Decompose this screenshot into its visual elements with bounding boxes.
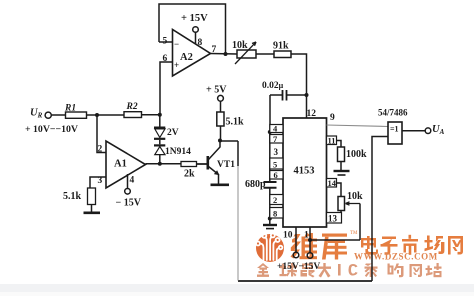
svg-text:− 15V: − 15V — [116, 198, 142, 209]
场 — [425, 236, 445, 255]
svg-text:A1: A1 — [114, 159, 127, 170]
pin 11 box — [327, 136, 337, 145]
svg-text:2: 2 — [273, 195, 277, 205]
svg-text:2: 2 — [98, 145, 103, 155]
op-amp A1 — [106, 141, 146, 188]
svg-text:+15V: +15V — [277, 262, 299, 272]
pin 4 stub — [127, 174, 129, 188]
子 — [381, 237, 398, 255]
ground: VT1 emitter — [211, 184, 230, 187]
svg-text:4: 4 — [130, 176, 135, 186]
svg-text:9: 9 — [330, 113, 335, 123]
resistor R1 — [66, 112, 87, 118]
wire: pin14 to pot — [337, 183, 342, 197]
capacitor 0.02u — [270, 94, 307, 96]
zener 2V — [154, 126, 165, 128]
node: diode/output junction — [158, 162, 162, 166]
pin 8 box — [270, 208, 283, 219]
input chain — [45, 112, 51, 118]
terminal U_A — [425, 128, 431, 134]
resistor 5.1k (A1) — [88, 188, 96, 205]
wire: cap left down to pin4 bus — [269, 95, 271, 132]
svg-text:13: 13 — [328, 214, 338, 224]
node: R1/R2 junction — [95, 113, 99, 117]
svg-text:+ 15V: + 15V — [181, 13, 208, 24]
+15V terminal — [193, 27, 199, 33]
bottom strip — [0, 284, 474, 292]
svg-text:12: 12 — [307, 109, 317, 119]
IC 4153 body — [283, 118, 327, 227]
svg-text:5: 5 — [163, 37, 168, 47]
wire: A2 output — [211, 53, 238, 56]
node: pin8 bus junction — [268, 217, 272, 221]
wire: pin5 entry — [159, 41, 172, 43]
node: collector junction — [218, 139, 222, 143]
logo circle — [256, 234, 284, 262]
svg-text:TM: TM — [350, 231, 358, 236]
svg-text:WWW.DZSC.COM: WWW.DZSC.COM — [354, 252, 438, 262]
svg-text:7: 7 — [212, 45, 217, 55]
pin 2 box — [270, 195, 283, 205]
capacitor 680p — [264, 182, 277, 188]
I — [338, 264, 341, 276]
库 — [322, 234, 347, 260]
svg-text:680p: 680p — [245, 179, 266, 190]
pin 7 box — [270, 135, 283, 144]
resistor R2 — [124, 112, 142, 118]
pin 5 box — [270, 158, 283, 169]
resistor 2k — [181, 162, 197, 167]
svg-text:=1: =1 — [390, 125, 399, 134]
wire: pin 1 down — [309, 227, 311, 253]
resistor 5.1k (collector) — [217, 112, 224, 126]
全 — [257, 263, 269, 277]
svg-text:91k: 91k — [273, 41, 289, 52]
wire: VT1 collector rail (faded) — [237, 165, 239, 281]
resistor 91k — [274, 51, 291, 58]
pin 4 box — [270, 125, 283, 133]
wire: A2 feedback loop — [159, 4, 226, 54]
diode chain — [159, 115, 161, 127]
电子市场网 (approximated strokes) — [361, 235, 463, 255]
wire: 91k to pin12 — [291, 54, 307, 118]
wire — [340, 162, 342, 171]
terminal +5V — [218, 95, 224, 101]
svg-text:11: 11 — [328, 136, 336, 146]
svg-text:10k: 10k — [347, 191, 363, 202]
pin 14 box — [327, 179, 337, 188]
svg-text:+: + — [174, 60, 179, 70]
svg-text:A2: A2 — [180, 52, 193, 63]
wire — [256, 53, 274, 55]
XOR gate 54/7486 — [388, 122, 402, 144]
op-amp A2 — [173, 30, 211, 77]
node: cap junction on pin12 wire — [305, 93, 309, 97]
svg-text:−15V: −15V — [299, 262, 321, 272]
svg-text:5.1k: 5.1k — [63, 191, 82, 202]
node: pin1/rail junction — [308, 238, 312, 242]
potentiometer 10k — [237, 50, 256, 58]
wire: rail from pin1 — [310, 239, 360, 241]
node: A2 output junction — [224, 52, 228, 56]
采 — [365, 264, 378, 278]
node: R2 / zener junction — [158, 113, 162, 117]
svg-text:8: 8 — [273, 209, 277, 219]
terminal +15V — [293, 252, 299, 258]
terminal -15V (A1) — [125, 189, 131, 195]
市 — [402, 235, 418, 255]
svg-text:8: 8 — [198, 38, 203, 48]
wire: A1 out to 2k to base — [146, 163, 207, 165]
svg-text:3: 3 — [274, 147, 279, 157]
wire: xor output — [402, 130, 425, 132]
svg-text:4153: 4153 — [294, 166, 315, 177]
svg-text:10: 10 — [283, 231, 293, 241]
ground: A1 5.1k — [84, 212, 101, 215]
potentiometer 10k (vertical) — [338, 197, 345, 211]
svg-text:R1: R1 — [64, 104, 76, 114]
wire: pin 10 down — [295, 227, 297, 252]
svg-text:0.02μ: 0.02μ — [262, 81, 284, 91]
svg-text:2V: 2V — [167, 128, 179, 138]
wire: pin11 to 100k — [337, 141, 342, 148]
pin8 stub — [195, 33, 197, 45]
diode 1N914 — [154, 144, 165, 146]
pin 6 box — [270, 171, 283, 180]
svg-text:10k: 10k — [232, 40, 248, 51]
svg-text:R2: R2 — [126, 102, 138, 112]
svg-text:3: 3 — [98, 176, 103, 186]
svg-text:1: 1 — [304, 231, 309, 241]
网 — [448, 236, 463, 255]
svg-text:2k: 2k — [184, 169, 195, 180]
transistor VT1 — [207, 156, 210, 170]
svg-text:+ 10V−−10V: + 10V−−10V — [25, 124, 78, 135]
电 — [361, 236, 378, 255]
svg-text:54/7486: 54/7486 — [378, 108, 408, 118]
wire: collector link — [220, 140, 238, 142]
svg-text:5.1k: 5.1k — [226, 117, 245, 128]
wire: pin6 entry and down to R2 node — [160, 62, 173, 115]
大 — [318, 263, 331, 278]
C — [349, 264, 358, 276]
购 — [388, 264, 404, 278]
维 — [291, 233, 318, 260]
terminal -15V — [307, 253, 313, 259]
svg-text:100k: 100k — [346, 149, 367, 160]
ground: left bus — [263, 224, 277, 226]
wire: pin 9 to XOR — [327, 125, 389, 127]
pin 13 box — [327, 213, 342, 224]
wire: wiper down to -15V rail — [359, 204, 361, 241]
站 — [426, 263, 442, 277]
svg-text:VT1: VT1 — [217, 160, 235, 170]
svg-text:+ 5V: + 5V — [206, 85, 227, 96]
wire: pin3 loop — [90, 177, 106, 188]
svg-text:6: 6 — [274, 170, 278, 180]
网 — [410, 264, 423, 277]
wire: bottom run — [238, 280, 372, 282]
wire: xor input 2 — [372, 137, 388, 282]
球 — [280, 263, 298, 277]
big brand chars 维库 (approximated strokes) — [291, 233, 348, 260]
node: pin4 junction — [268, 130, 272, 134]
wire: pin2 from R1/R2 node — [97, 115, 106, 153]
svg-text:−: − — [174, 39, 179, 49]
svg-text:6: 6 — [163, 54, 168, 64]
bottom salmon row: 全 球 最 大 I C 采 购 网 站 — [257, 263, 442, 278]
wire: left pin bus — [269, 132, 271, 182]
svg-text:1N914: 1N914 — [165, 147, 191, 157]
ground: under 100k — [334, 170, 350, 172]
svg-text:14: 14 — [328, 178, 337, 188]
svg-text:5: 5 — [273, 160, 277, 170]
resistor 100k — [338, 147, 345, 162]
最 — [301, 264, 315, 278]
wiper arrow — [346, 202, 361, 205]
